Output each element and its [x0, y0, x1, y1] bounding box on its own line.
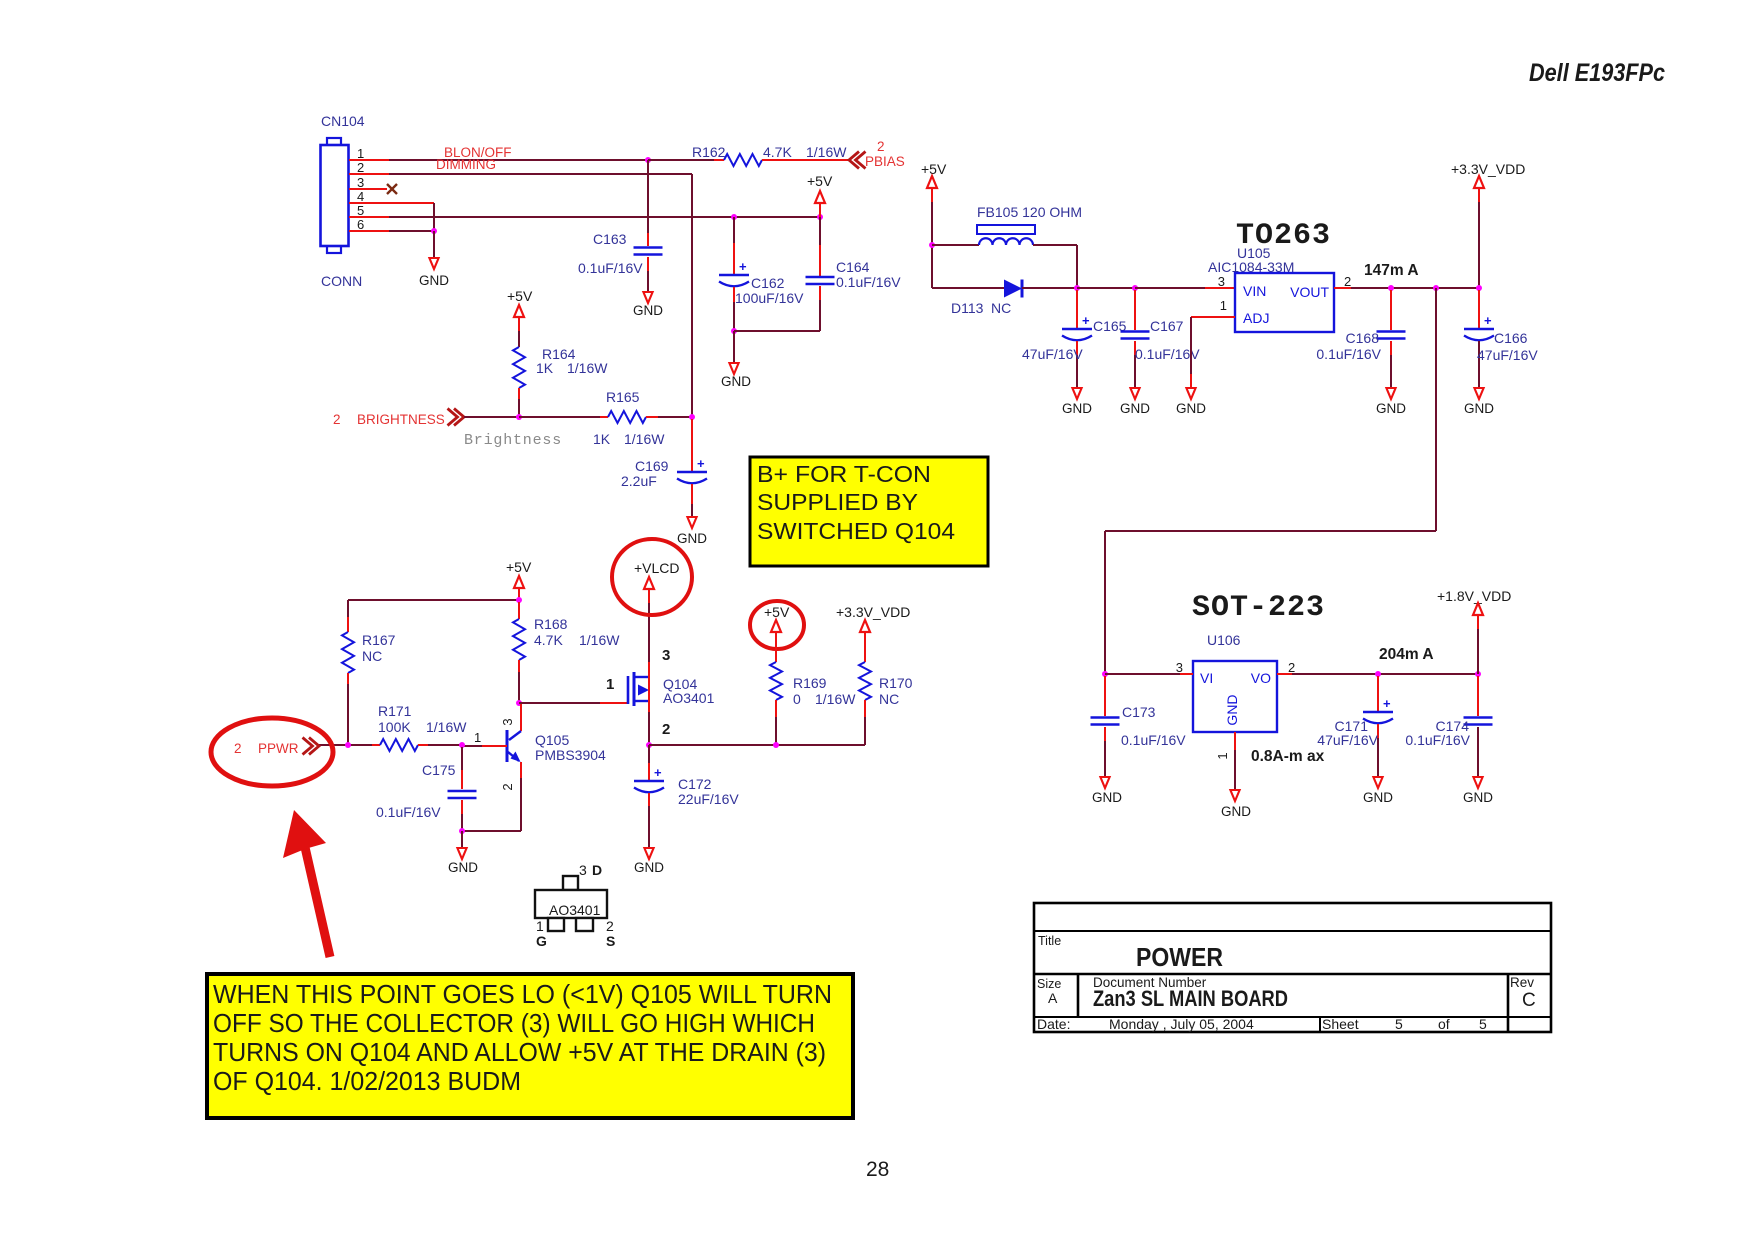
- svg-text:2.2uF: 2.2uF: [621, 473, 657, 489]
- node junction pin4/pin6/GND: [431, 228, 437, 234]
- node junction R168/Q105 collector/gate: [516, 700, 522, 706]
- package label SOT-223: [1192, 591, 1325, 625]
- svg-text:R162: R162: [692, 144, 726, 160]
- svg-text:0: 0: [793, 691, 801, 707]
- svg-text:C164: C164: [836, 259, 870, 275]
- svg-text:+3.3V_VDD: +3.3V_VDD: [836, 604, 910, 620]
- svg-text:2: 2: [234, 741, 242, 756]
- ground C162: [721, 363, 751, 389]
- svg-text:2: 2: [1288, 660, 1295, 675]
- svg-text:PMBS3904: PMBS3904: [535, 747, 606, 763]
- svg-text:2: 2: [333, 412, 341, 427]
- connector CN104: [321, 113, 365, 289]
- ground C175: [448, 848, 478, 875]
- wire pin5 +5V rail: [349, 216, 820, 218]
- svg-text:R167: R167: [362, 632, 396, 648]
- net label BLON/OFF: [444, 145, 512, 160]
- net name Brightness: [464, 432, 562, 449]
- svg-text:CN104: CN104: [321, 113, 365, 129]
- node junction C162 bottom: [731, 328, 737, 334]
- svg-text:100uF/16V: 100uF/16V: [735, 290, 804, 306]
- capacitor C168: [1316, 290, 1405, 388]
- pin 3 label U105: [1218, 274, 1225, 289]
- svg-text:2: 2: [877, 139, 885, 154]
- wire +5V rail to R167: [348, 599, 519, 601]
- svg-text:3: 3: [662, 647, 670, 664]
- svg-text:1/16W: 1/16W: [579, 632, 620, 648]
- svg-text:0.1uF/16V: 0.1uF/16V: [836, 274, 901, 290]
- pin 1 label U106: [1215, 752, 1230, 759]
- pin 1 label Q104: [606, 676, 614, 693]
- note box Q105 explanation: [207, 974, 853, 1118]
- svg-text:VIN: VIN: [1243, 283, 1266, 299]
- svg-text:+5V: +5V: [507, 288, 533, 304]
- ground C173: [1092, 777, 1122, 805]
- svg-text:Brightness: Brightness: [464, 432, 562, 449]
- pin 2 label U105: [1344, 274, 1351, 289]
- wire gate Q104: [519, 702, 628, 704]
- ground ADJ: [1176, 388, 1206, 416]
- svg-text:1: 1: [474, 730, 481, 745]
- annotation red arrow: [283, 810, 330, 957]
- wire PPWR to R167: [319, 744, 372, 746]
- svg-text:FB105 120 OHM: FB105 120 OHM: [977, 204, 1082, 220]
- svg-text:4: 4: [357, 189, 364, 204]
- resistor R162: [648, 144, 849, 166]
- port PPWR: [234, 738, 319, 757]
- svg-text:22uF/16V: 22uF/16V: [678, 791, 739, 807]
- page number 28: [866, 1158, 889, 1181]
- svg-text:GND: GND: [1363, 790, 1393, 805]
- svg-text:SWITCHED Q104: SWITCHED Q104: [757, 518, 955, 544]
- svg-text:DIMMING: DIMMING: [436, 157, 496, 172]
- pin 3 label U106: [1176, 660, 1183, 675]
- svg-text:GND: GND: [448, 860, 478, 875]
- svg-text:1/16W: 1/16W: [426, 719, 467, 735]
- wire to C167: [1077, 287, 1135, 289]
- port BRIGHTNESS: [333, 409, 464, 428]
- svg-text:2: 2: [357, 160, 364, 175]
- capacitor C172: [634, 745, 739, 848]
- svg-text:of: of: [1438, 1016, 1450, 1032]
- svg-text:3: 3: [1218, 274, 1225, 289]
- svg-text:U106: U106: [1207, 632, 1241, 648]
- svg-text:Sheet: Sheet: [1322, 1016, 1359, 1032]
- svg-text:VO: VO: [1251, 670, 1271, 686]
- svg-text:C166: C166: [1494, 330, 1528, 346]
- svg-text:1K: 1K: [536, 360, 554, 376]
- svg-text:+: +: [1082, 313, 1090, 328]
- svg-text:R171: R171: [378, 703, 412, 719]
- svg-text:2: 2: [500, 783, 515, 790]
- wire pin4: [349, 203, 434, 231]
- svg-text:C167: C167: [1150, 318, 1184, 334]
- svg-text:3: 3: [579, 862, 587, 878]
- svg-text:GND: GND: [721, 374, 751, 389]
- svg-text:A: A: [1048, 990, 1058, 1006]
- resistor R169: [770, 646, 856, 745]
- svg-text:5: 5: [1479, 1016, 1487, 1032]
- capacitor C162: [719, 217, 804, 331]
- svg-text:4.7K: 4.7K: [763, 144, 792, 160]
- svg-text:2: 2: [606, 918, 614, 934]
- diode D113: [932, 280, 1077, 317]
- wire C175 to ground: [461, 831, 463, 848]
- ground C171: [1363, 777, 1393, 805]
- svg-text:3: 3: [500, 718, 515, 725]
- power +5V (R169): [764, 604, 790, 646]
- svg-text:1: 1: [1220, 298, 1227, 313]
- svg-text:6: 6: [357, 217, 364, 232]
- pin 2 label U106: [1288, 660, 1295, 675]
- svg-text:Q105: Q105: [535, 732, 569, 748]
- power +3.3V_VDD (R170): [836, 604, 910, 646]
- resistor R168: [513, 602, 620, 703]
- node junction R171/C175/base: [459, 742, 465, 748]
- node junction Q104 drain: [646, 742, 652, 748]
- wire U106 GND pin: [1234, 732, 1236, 790]
- svg-text:C163: C163: [593, 231, 627, 247]
- svg-text:1: 1: [606, 676, 614, 693]
- svg-text:+5V: +5V: [764, 604, 790, 620]
- svg-text:Size: Size: [1037, 977, 1061, 991]
- svg-text:+5V: +5V: [807, 173, 833, 189]
- svg-text:0.1uF/16V: 0.1uF/16V: [1121, 732, 1186, 748]
- svg-text:28: 28: [866, 1158, 889, 1181]
- pin 1 label U105: [1220, 298, 1227, 313]
- svg-text:S: S: [606, 933, 615, 949]
- node junction R167/R168: [516, 597, 522, 603]
- svg-text:5: 5: [357, 203, 364, 218]
- ground C174: [1463, 777, 1493, 805]
- svg-text:GND: GND: [1062, 401, 1092, 416]
- annotation ellipse PPWR: [211, 718, 333, 786]
- svg-text:C172: C172: [678, 776, 712, 792]
- svg-text:Title: Title: [1038, 934, 1061, 948]
- svg-text:NC: NC: [991, 300, 1011, 316]
- svg-text:1/16W: 1/16W: [567, 360, 608, 376]
- svg-text:GND: GND: [1176, 401, 1206, 416]
- wire to VIN: [1135, 287, 1235, 289]
- svg-text:100K: 100K: [378, 719, 411, 735]
- svg-text:Rev: Rev: [1510, 975, 1534, 990]
- svg-text:5: 5: [1395, 1016, 1403, 1032]
- port PBIAS: [849, 139, 905, 169]
- wire BRIGHTNESS to R164: [464, 416, 519, 418]
- svg-text:0.8A-m ax: 0.8A-m ax: [1251, 748, 1325, 765]
- capacitor C171: [1317, 676, 1393, 777]
- svg-text:2: 2: [1344, 274, 1351, 289]
- svg-text:PPWR: PPWR: [258, 741, 299, 756]
- wire to ground: [433, 231, 435, 258]
- node junction C175/emitter: [459, 828, 465, 834]
- svg-text:GND: GND: [419, 273, 449, 288]
- svg-text:1/16W: 1/16W: [815, 691, 856, 707]
- svg-text:147m A: 147m A: [1364, 262, 1419, 279]
- svg-text:1K: 1K: [593, 431, 611, 447]
- node junction C174: [1475, 671, 1481, 677]
- power +1.8V_VDD: [1437, 588, 1511, 674]
- svg-text:AO3401: AO3401: [663, 690, 715, 706]
- svg-text:NC: NC: [362, 648, 382, 664]
- svg-text:C173: C173: [1122, 704, 1156, 720]
- svg-text:GND: GND: [1224, 694, 1240, 725]
- capacitor C163: [578, 160, 663, 292]
- svg-text:B+ FOR T-CON: B+ FOR T-CON: [757, 461, 931, 487]
- annotation circle +VLCD: [612, 539, 692, 615]
- svg-text:Dell E193FPc: Dell E193FPc: [1529, 59, 1665, 87]
- svg-text:GND: GND: [634, 860, 664, 875]
- svg-text:GND: GND: [1464, 401, 1494, 416]
- svg-text:0.1uF/16V: 0.1uF/16V: [1316, 346, 1381, 362]
- svg-text:SUPPLIED BY: SUPPLIED BY: [757, 489, 918, 515]
- label 147mA: [1364, 262, 1419, 279]
- ground C165: [1062, 388, 1092, 416]
- svg-text:+: +: [739, 259, 747, 274]
- svg-text:1/16W: 1/16W: [624, 431, 665, 447]
- svg-text:GND: GND: [1221, 804, 1251, 819]
- capacitor C169: [621, 419, 707, 517]
- svg-text:GND: GND: [1092, 790, 1122, 805]
- svg-text:ADJ: ADJ: [1243, 310, 1269, 326]
- svg-text:SOT-223: SOT-223: [1192, 591, 1325, 625]
- label 204mA: [1379, 646, 1434, 663]
- label 0.8A-max: [1251, 748, 1325, 765]
- svg-text:1/16W: 1/16W: [806, 144, 847, 160]
- svg-text:+3.3V_VDD: +3.3V_VDD: [1451, 161, 1525, 177]
- transistor Q104 AO3401: [628, 647, 715, 745]
- svg-text:D113: D113: [951, 300, 984, 316]
- svg-text:C: C: [1522, 990, 1536, 1011]
- transistor Q105 PMBS3904: [462, 704, 606, 831]
- regulator U105 AIC1084-33M: [1208, 245, 1334, 332]
- ground connector GND: [419, 258, 449, 288]
- ground C169: [677, 517, 707, 546]
- svg-text:OFF SO THE COLLECTOR (3) WILL: OFF SO THE COLLECTOR (3) WILL GO HIGH WH…: [213, 1008, 815, 1038]
- svg-text:1: 1: [536, 918, 544, 934]
- svg-text:204m A: 204m A: [1379, 646, 1434, 663]
- svg-text:AO3401: AO3401: [549, 902, 601, 918]
- ground C172: [634, 848, 664, 875]
- capacitor C165: [1022, 290, 1127, 388]
- svg-text:+VLCD: +VLCD: [634, 560, 680, 576]
- node junction R164/brightness: [516, 414, 522, 420]
- svg-text:+: +: [654, 765, 662, 780]
- wire pin1 BLON/OFF: [349, 159, 648, 161]
- node junction C168: [1388, 285, 1394, 291]
- capacitor C164: [806, 217, 902, 331]
- svg-text:1: 1: [1215, 752, 1230, 759]
- ferrite bead FB105 120 OHM: [932, 204, 1082, 288]
- svg-text:BRIGHTNESS: BRIGHTNESS: [357, 412, 445, 427]
- ground U106: [1221, 790, 1251, 819]
- svg-text:0.1uF/16V: 0.1uF/16V: [1405, 732, 1470, 748]
- node junction C162 top: [731, 214, 737, 220]
- svg-text:R170: R170: [879, 675, 913, 691]
- annotation circle +5V: [750, 601, 804, 649]
- ground C168: [1376, 388, 1406, 416]
- node junction C165: [1074, 285, 1080, 291]
- svg-text:NC: NC: [879, 691, 899, 707]
- power +3.3V_VDD (rail): [1451, 161, 1525, 288]
- svg-text:R165: R165: [606, 389, 640, 405]
- svg-text:Date:: Date:: [1037, 1016, 1070, 1032]
- svg-text:Monday , July 05, 2004: Monday , July 05, 2004: [1109, 1016, 1254, 1032]
- svg-text:+1.8V_VDD: +1.8V_VDD: [1437, 588, 1511, 604]
- package drawing AO3401: [535, 862, 615, 949]
- resistor R164: [513, 331, 608, 417]
- capacitor C167: [1121, 290, 1201, 388]
- svg-text:PBIAS: PBIAS: [865, 154, 905, 169]
- wire pin2 DIMMING: [349, 174, 692, 417]
- wire ADJ to ground: [1191, 317, 1235, 388]
- svg-text:C169: C169: [635, 458, 669, 474]
- power +5V (FB105): [921, 161, 947, 288]
- svg-text:0.1uF/16V: 0.1uF/16V: [578, 260, 643, 276]
- power +5V (rail): [807, 173, 833, 217]
- wire C162-C164 bottoms: [734, 330, 820, 332]
- wire C162 to ground: [733, 331, 735, 363]
- node junction FB105 branch: [929, 242, 935, 248]
- power +5V (R168): [506, 559, 532, 602]
- svg-text:VOUT: VOUT: [1290, 284, 1329, 300]
- wire down-link to U106: [1105, 288, 1436, 674]
- svg-text:2: 2: [662, 721, 670, 738]
- node junction C173/VI: [1102, 671, 1108, 677]
- node junction C171: [1375, 671, 1381, 677]
- svg-text:GND: GND: [677, 531, 707, 546]
- regulator U106: [1193, 632, 1277, 732]
- svg-text:47uF/16V: 47uF/16V: [1317, 732, 1378, 748]
- svg-text:3: 3: [357, 175, 364, 190]
- svg-text:Zan3 SL MAIN BOARD: Zan3 SL MAIN BOARD: [1093, 986, 1288, 1011]
- package label TO263: [1236, 219, 1331, 253]
- svg-text:VI: VI: [1200, 670, 1213, 686]
- svg-text:+: +: [697, 456, 705, 471]
- svg-text:+: +: [1383, 696, 1391, 711]
- capacitor C175: [376, 747, 477, 831]
- svg-text:R169: R169: [793, 675, 827, 691]
- node junction R165/DIMMING/C169: [689, 414, 695, 420]
- title block: [1034, 903, 1551, 1032]
- resistor R170: [859, 646, 913, 745]
- svg-text:D: D: [592, 862, 602, 878]
- svg-text:CONN: CONN: [321, 273, 362, 289]
- svg-text:3: 3: [1176, 660, 1183, 675]
- svg-text:G: G: [536, 933, 547, 949]
- net label DIMMING: [436, 157, 496, 172]
- resistor R171: [372, 703, 467, 751]
- node junction pin1/R162/C163: [645, 157, 651, 163]
- svg-text:GND: GND: [1376, 401, 1406, 416]
- ground C166: [1464, 388, 1494, 416]
- wire base Q105: [462, 745, 507, 747]
- svg-text:+5V: +5V: [506, 559, 532, 575]
- svg-text:4.7K: 4.7K: [534, 632, 563, 648]
- wire drain rail: [649, 744, 865, 746]
- svg-text:R168: R168: [534, 616, 568, 632]
- capacitor C173: [1091, 676, 1187, 777]
- ground C163: [633, 292, 663, 318]
- svg-text:+5V: +5V: [921, 161, 947, 177]
- svg-text:+: +: [1484, 313, 1492, 328]
- svg-text:GND: GND: [1463, 790, 1493, 805]
- svg-text:C162: C162: [751, 275, 785, 291]
- svg-text:TURNS ON Q104 AND ALLOW +5V AT: TURNS ON Q104 AND ALLOW +5V AT THE DRAIN…: [213, 1037, 826, 1067]
- wire pin3 no-connect: [349, 188, 387, 190]
- ground C167: [1120, 388, 1150, 416]
- svg-text:GND: GND: [1120, 401, 1150, 416]
- node junction C167: [1132, 285, 1138, 291]
- wire VO rail: [1277, 673, 1478, 675]
- svg-text:GND: GND: [633, 303, 663, 318]
- power +VLCD: [634, 560, 680, 662]
- svg-text:0.1uF/16V: 0.1uF/16V: [376, 804, 441, 820]
- svg-text:47uF/16V: 47uF/16V: [1022, 346, 1083, 362]
- svg-text:POWER: POWER: [1136, 942, 1223, 972]
- node junction C166: [1476, 285, 1482, 291]
- wire VOUT rail: [1334, 287, 1479, 289]
- capacitor C166: [1464, 290, 1538, 388]
- svg-text:1: 1: [357, 146, 364, 161]
- node junction R167/PPWR: [345, 742, 351, 748]
- wire pin6: [349, 230, 434, 232]
- svg-text:OF Q104. 1/02/2013 BUDM: OF Q104. 1/02/2013 BUDM: [213, 1066, 521, 1096]
- resistor R165: [519, 389, 692, 447]
- node junction +5V/C164: [817, 214, 823, 220]
- node junction R169 bottom: [773, 742, 779, 748]
- resistor R167: [342, 600, 396, 745]
- svg-text:47uF/16V: 47uF/16V: [1477, 347, 1538, 363]
- note box B+ for T-CON: [750, 457, 988, 566]
- power +5V (R164): [507, 288, 533, 331]
- svg-text:WHEN THIS POINT GOES LO (<1V): WHEN THIS POINT GOES LO (<1V) Q105 WILL …: [213, 979, 832, 1009]
- node junction down-link: [1433, 285, 1439, 291]
- wire VI: [1105, 673, 1193, 675]
- no-connect X mark: [387, 184, 397, 194]
- capacitor C174: [1405, 676, 1492, 777]
- svg-text:C175: C175: [422, 762, 456, 778]
- svg-text:C168: C168: [1346, 330, 1380, 346]
- title Dell E193FPc: [1529, 59, 1665, 87]
